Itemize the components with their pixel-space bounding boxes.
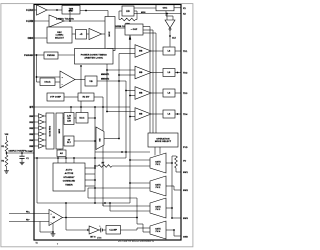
wire OA2 feedback [39, 222, 41, 233]
node U10 bottom junction [80, 65, 82, 67]
resistor R3 [98, 165, 112, 168]
svg-text:GATE: GATE [155, 206, 161, 209]
wire A1 output [47, 9, 63, 11]
node R divider junction [6, 152, 8, 154]
svg-text:AUTO: AUTO [66, 168, 73, 171]
page border frame [1, 4, 193, 247]
otp comparator block U13 [47, 93, 64, 101]
svg-text:MB: MB [139, 114, 143, 116]
wire G1 long bus [171, 163, 173, 218]
bus line V107 [106, 49, 108, 112]
bus line V119 [118, 54, 120, 139]
svg-text:CLK: CLK [172, 38, 177, 40]
logic block U22 [53, 163, 85, 191]
wire BT to U17 [70, 107, 72, 113]
buffer BI1 [39, 120, 45, 125]
wire BI3 to register [45, 133, 47, 135]
wire CMP2 inputs [107, 69, 135, 71]
register block U15 [46, 113, 54, 149]
wire U13 to U14 [64, 96, 78, 98]
wire R3 left [95, 165, 98, 167]
svg-text:C1: C1 [26, 158, 29, 160]
wire T1 upper input [130, 159, 150, 161]
svg-text:SW2: SW2 [183, 190, 189, 192]
svg-text:R2: R2 [1, 161, 4, 163]
wire R3 to driver T1 [112, 165, 150, 167]
wire U11 to OA1 [55, 81, 60, 83]
wire U2 to MUX top [80, 10, 108, 12]
amp A1 [37, 5, 48, 15]
wire U3 to U4 [72, 33, 76, 35]
capacitor C1 [21, 153, 23, 156]
svg-text:PVD: PVD [183, 147, 188, 149]
wire U22 right stubs [85, 167, 95, 169]
wire PWRGD upper branch [37, 76, 61, 78]
ground GND3 [52, 232, 54, 234]
svg-text:AD: AD [60, 152, 64, 155]
wire U16 to U17 [63, 117, 64, 119]
wire BI1 to register [45, 121, 47, 123]
node PWRGD junction [36, 54, 38, 56]
gate driver G3 [150, 198, 166, 218]
resistor R5 [175, 156, 178, 168]
ground GND2 [21, 158, 23, 160]
svg-text:GATE: GATE [155, 228, 161, 231]
gate driver G1 [150, 153, 166, 173]
bus line V95 [94, 107, 96, 203]
wire G4 out [166, 229, 174, 231]
wire PWRGD down branch [36, 55, 38, 82]
node C1 junction [21, 152, 23, 154]
svg-text:VB: VB [89, 81, 93, 83]
wire R2 top [6, 153, 8, 155]
wire R4 right leg [134, 10, 137, 12]
svg-text:SW3: SW3 [183, 218, 189, 220]
power good block U9 [44, 52, 58, 59]
wire LS3 to pin [175, 92, 181, 94]
buffer BI2 [39, 126, 45, 131]
node A1OUT junction [56, 9, 58, 11]
svg-text:COMP: COMP [26, 151, 33, 153]
node feedback junction [52, 231, 54, 233]
wire U22 top stubs [57, 158, 59, 163]
wire BI0 to register [45, 115, 47, 117]
buffer BI5 [39, 144, 45, 149]
resistor R4 feedback [121, 18, 136, 21]
svg-text:SELECT: SELECT [55, 37, 65, 39]
node V107 junctions [106, 69, 108, 71]
comparator CMP1 [135, 45, 151, 58]
node OA2 out junction [65, 217, 67, 219]
svg-text:GATE: GATE [155, 184, 161, 187]
svg-text:R2 DIV: R2 DIV [83, 97, 90, 99]
svg-text:MUX: MUX [109, 31, 111, 36]
wire CMP4 to LS4 [151, 113, 163, 115]
node G3 out [171, 207, 173, 209]
wire R1 to COMP pin [6, 152, 8, 154]
resistor R2 [5, 155, 8, 167]
node branch junction [36, 76, 38, 78]
wire LS1 to pin [175, 50, 181, 52]
svg-text:PWRGD: PWRGD [47, 55, 55, 57]
wire rail Y152 [95, 151, 150, 153]
wire T2 input lower [88, 187, 150, 189]
svg-text:TIMER: TIMER [65, 184, 73, 186]
wire BI4 to register [45, 139, 47, 141]
svg-text:MMBST2: MMBST2 [101, 78, 109, 80]
svg-text:R1: R1 [1, 146, 4, 148]
svg-text:4096: 4096 [141, 11, 145, 14]
svg-text:MB: MB [139, 72, 143, 74]
node clock tap [166, 13, 168, 15]
node G1 out junction [171, 162, 173, 164]
svg-text:MUX: MUX [59, 128, 61, 133]
node A2OUT junction [69, 20, 71, 22]
mux block U16 [56, 113, 63, 149]
node LS4 out junction [177, 113, 179, 115]
level shifter LS2 [163, 69, 175, 77]
svg-text:OTP COMP: OTP COMP [50, 97, 62, 99]
svg-text:10mA: 10mA [44, 80, 51, 83]
svg-text:DATA REG: DATA REG [48, 125, 51, 136]
bias block U11 [40, 78, 55, 86]
regulator block U12 [85, 76, 97, 86]
adc block U20 [57, 150, 66, 157]
amp A2 [49, 15, 64, 27]
op-amp OA2 [49, 210, 63, 226]
wire U16 to U20 [59, 149, 61, 150]
wire G3 out [166, 207, 172, 209]
level shifter LS3 [163, 89, 175, 97]
node BT junctions [80, 106, 82, 108]
node V126 junctions [125, 90, 127, 92]
buffer BI3 [39, 132, 45, 137]
gate driver G2 [150, 176, 166, 196]
svg-text:OSC: OSC [57, 32, 62, 34]
node V119 junctions [118, 74, 120, 76]
svg-text:GND: GND [183, 237, 188, 239]
wire CMP4 inputs [107, 111, 135, 113]
node rail158 junctions [36, 157, 38, 159]
wire MUX out to divider U6 [115, 27, 125, 29]
svg-text:POWER DOWN TIMING: POWER DOWN TIMING [81, 55, 107, 57]
inverter INV1 [165, 20, 175, 28]
wire CMP3 inputs [126, 90, 135, 92]
wire T2 input upper [130, 182, 150, 184]
IC boundary U1 [34, 5, 181, 241]
svg-text:+: + [99, 225, 100, 227]
buffer BI4 [39, 138, 45, 143]
svg-text:TD3: TD3 [183, 93, 188, 95]
node G3 bus junction [171, 217, 173, 219]
wire G2 out [166, 185, 174, 187]
svg-text:MODE SELECT: MODE SELECT [155, 141, 172, 143]
wire A1-A2 tie [69, 11, 71, 22]
wire U14 out [94, 96, 103, 98]
wire LS2 to pin [175, 72, 181, 74]
buffer BI0 [39, 114, 45, 119]
svg-text:INT G: INT G [90, 236, 96, 238]
svg-text:DLY: DLY [67, 142, 72, 144]
wire U6 out1 [143, 26, 150, 28]
node G4 out [173, 229, 175, 231]
wire OA2 bottom tap [52, 223, 54, 232]
svg-text:PH 4: PH 4 [156, 230, 162, 233]
wire CMP3 to LS3 [151, 92, 163, 94]
wire U24 bottom stubs [154, 147, 156, 155]
node U22 stub junctions [94, 167, 96, 169]
svg-text:MMBST1: MMBST1 [101, 74, 109, 76]
svg-text:BT: BT [30, 107, 34, 109]
oscillator select block U3 [47, 27, 72, 43]
wire R5 to pin SW1 [175, 168, 177, 172]
wire U10 bottom to DAC [80, 66, 82, 113]
wire VB out bus [97, 80, 126, 82]
svg-text:SAMPLE PS/5/EFG: SAMPLE PS/5/EFG [9, 149, 27, 152]
svg-text:OSC: OSC [163, 8, 168, 10]
wire bus to pin SW3 [172, 217, 181, 219]
wire CMP2 to LS2 [151, 72, 163, 74]
node rail152 junction [121, 151, 123, 153]
wire rail Y158 [34, 157, 126, 159]
wire V37 [36, 158, 38, 203]
wire U6 bottom bus [129, 35, 131, 203]
wire V103 lower [102, 203, 104, 206]
ground GND1 [6, 169, 8, 171]
svg-text:PH 3: PH 3 [156, 209, 161, 211]
wire U8 bottom to inverter [165, 11, 167, 16]
clamp block U23 [106, 226, 121, 235]
svg-text:MB: MB [139, 93, 143, 95]
node INV1 out [169, 35, 171, 37]
wire INV1 out to LS1 [169, 30, 171, 46]
svg-text:CLKA: CLKA [26, 9, 33, 12]
bus line V126 [125, 81, 127, 158]
resistor R1 [5, 141, 8, 152]
svg-text:DS 3 1EB FW BLOCK DIAGRAMS 01: DS 3 1EB FW BLOCK DIAGRAMS 01 [118, 239, 154, 242]
svg-text:DAC: DAC [79, 117, 84, 120]
svg-text:GATE: GATE [155, 161, 161, 164]
wire U19 out [74, 140, 95, 142]
wire R4 left leg [119, 10, 122, 12]
svg-text:SW1: SW1 [183, 172, 189, 174]
svg-text:COMMAND: COMMAND [63, 180, 76, 183]
power down block U10 [75, 49, 114, 65]
divider block U6 [125, 24, 143, 35]
wire BI2 to register [45, 127, 47, 129]
wire VIN stub [6, 136, 8, 141]
svg-text:1.0MHz T/4.8kHz: 1.0MHz T/4.8kHz [56, 18, 74, 21]
node tie junction [69, 10, 71, 12]
arrowhead into U6 [129, 36, 131, 40]
svg-text:PH 2: PH 2 [156, 187, 161, 189]
wire DAC out [88, 117, 95, 119]
level shifter LS1 [163, 47, 175, 55]
wire CMP1 inputs [107, 48, 135, 50]
bus line V103 [102, 97, 104, 206]
delay block U19 [64, 136, 74, 146]
gate driver G4 [150, 221, 166, 239]
buffer B1 [89, 29, 102, 40]
osc gain block U7 [122, 6, 134, 16]
node U19 out junction [94, 140, 96, 142]
svg-text:TD1: TD1 [183, 51, 188, 53]
wire U6 out2 [143, 29, 153, 31]
svg-text:CLKB: CLKB [26, 21, 33, 23]
svg-text:OSC: OSC [28, 38, 34, 40]
gm amp U21 [96, 127, 104, 150]
wire clock tap to inverter [166, 14, 168, 21]
wire OA2 out [63, 217, 138, 219]
osc block U8 [156, 5, 174, 11]
svg-text:GM: GM [100, 138, 102, 142]
divider block U14 [78, 93, 94, 101]
wire U23 to T4 [121, 229, 138, 231]
divider U4 [76, 30, 87, 40]
node rail203 junctions [94, 202, 96, 204]
svg-text:ACTIVE: ACTIVE [65, 172, 74, 175]
svg-text:MB: MB [139, 51, 143, 53]
svg-text:STANDBY: STANDBY [63, 176, 75, 179]
comparator CMP3 [135, 87, 151, 100]
wire T3 input lower [109, 203, 111, 211]
svg-text:÷ OSP: ÷ OSP [131, 28, 138, 31]
wire U8 to pin XIN [174, 7, 181, 9]
mode select block U24 [148, 133, 178, 147]
mux U5 [105, 17, 115, 51]
wire A2 output to MUX [64, 20, 105, 22]
node DAC out junction [94, 117, 96, 119]
wire G1 to resistor [171, 156, 173, 163]
wire U9 to U10 [58, 54, 75, 56]
node U2 out junction [85, 10, 87, 12]
wire OA2 branch up [65, 203, 67, 218]
svg-text:AG: AG [126, 10, 130, 13]
wire rail Y198 [88, 197, 137, 199]
svg-text:PH 1: PH 1 [156, 164, 161, 166]
svg-text:VIN: VIN [5, 134, 9, 136]
wire U21 out [104, 138, 119, 140]
op-amp OA1 [60, 71, 75, 88]
node T2 input junction [94, 187, 96, 189]
level shifter LS4 [163, 110, 175, 118]
svg-text:TD4: TD4 [183, 113, 188, 116]
comparator CMP2 [135, 66, 151, 79]
svg-text:1786: 1786 [97, 237, 101, 239]
node rail203 tap [65, 202, 67, 204]
svg-text:VO: VO [183, 161, 187, 163]
wire U6 out3 [143, 32, 156, 34]
wire rail Y203 [37, 202, 130, 204]
wire clock net to pin XOUT [134, 13, 181, 15]
delay block U2 [62, 6, 80, 15]
buffer B2 [87, 229, 89, 231]
wire T3 input upper [103, 205, 150, 207]
wire BI5 to register [45, 145, 47, 147]
svg-text:OPERATION: OPERATION [156, 137, 170, 140]
wire OA1 out to VB [75, 79, 85, 81]
wire CMP1 to LS1 [151, 50, 163, 52]
wire B1 to MUX [102, 33, 106, 35]
wire Y217 to T4 [136, 198, 138, 224]
comparator CMP4 [135, 108, 151, 121]
wire LS4 to pin [175, 113, 181, 115]
bandgap block U17 [64, 113, 74, 125]
svg-text:CLAMP: CLAMP [109, 228, 117, 231]
node BT tap [70, 106, 72, 108]
svg-text:LIM: LIM [67, 121, 71, 123]
node V130 junctions [129, 95, 131, 97]
svg-text:1.0MHz: 1.0MHz [56, 35, 64, 37]
wire buffer branch [65, 218, 67, 231]
dac block U18 [76, 113, 88, 124]
capacitor C2 [99, 229, 101, 231]
wire U17 to DAC [74, 117, 76, 119]
node R3 junction [94, 165, 96, 167]
svg-text:TD2: TD2 [183, 72, 188, 74]
wire R2 bottom [6, 167, 8, 170]
svg-text:PWRGD: PWRGD [24, 55, 33, 57]
wire U7 to U8 [134, 7, 156, 9]
wire U4 to B1 [87, 33, 90, 35]
svg-text:ARBITER LOGIC: ARBITER LOGIC [84, 56, 103, 59]
wire G1 out [166, 162, 172, 164]
node LS2 out junction [177, 72, 179, 74]
